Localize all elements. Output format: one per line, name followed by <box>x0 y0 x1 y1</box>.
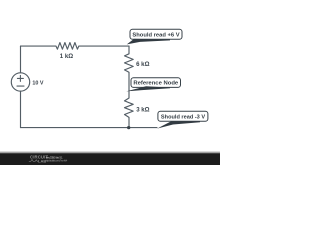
svg-text:1 kΩ: 1 kΩ <box>60 53 73 60</box>
svg-text:Should read -3 V: Should read -3 V <box>161 114 205 120</box>
svg-text:3 kΩ: 3 kΩ <box>136 107 149 114</box>
svg-text:Should read +6 V: Should read +6 V <box>132 32 179 38</box>
svg-text:http://circuitlab.com/c/7wm4b4: http://circuitlab.com/c/7wm4b4 <box>46 159 68 162</box>
svg-text:10 V: 10 V <box>32 81 43 87</box>
svg-text:Reference Node: Reference Node <box>133 81 179 87</box>
svg-text:6 kΩ: 6 kΩ <box>136 61 149 68</box>
